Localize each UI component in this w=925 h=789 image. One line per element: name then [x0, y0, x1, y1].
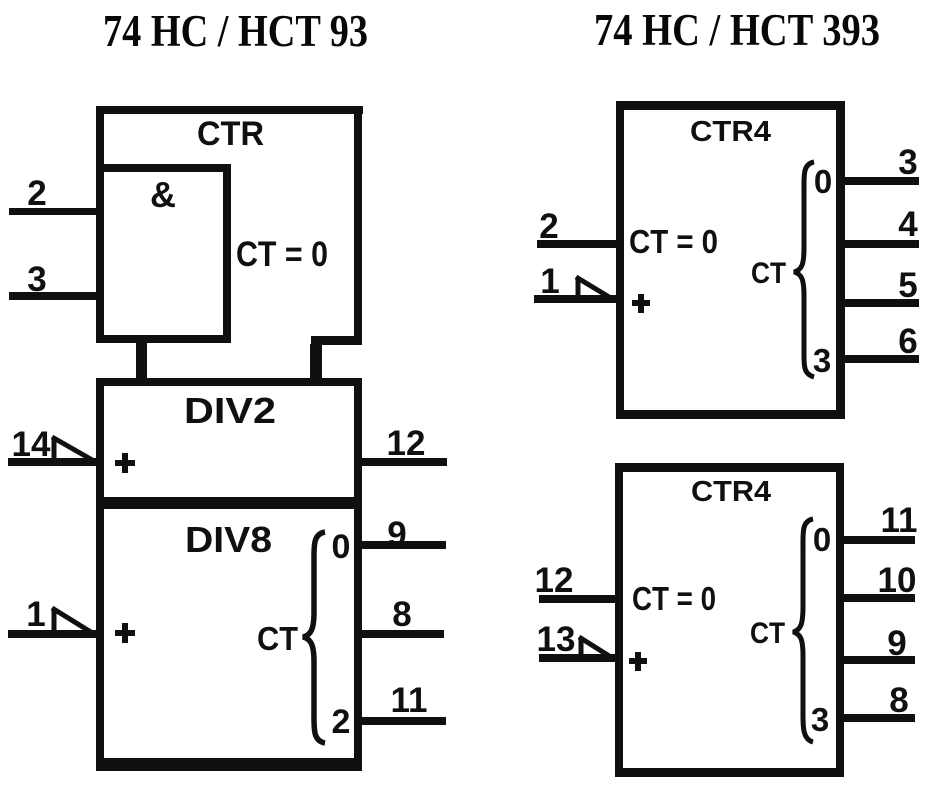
svg-text:9: 9: [887, 624, 906, 663]
svg-text:CT = 0: CT = 0: [632, 580, 716, 617]
svg-text:9: 9: [387, 515, 406, 554]
svg-text:11: 11: [391, 681, 428, 720]
svg-text:0: 0: [814, 163, 832, 200]
svg-text:CTR4: CTR4: [691, 476, 771, 508]
svg-text:8: 8: [889, 681, 908, 720]
svg-text:10: 10: [878, 561, 917, 600]
svg-text:2: 2: [332, 703, 351, 741]
svg-text:12: 12: [535, 561, 574, 600]
svg-text:DIV8: DIV8: [185, 519, 272, 560]
svg-text:CT: CT: [751, 257, 786, 290]
svg-text:CT: CT: [750, 617, 785, 650]
svg-text:0: 0: [813, 521, 831, 558]
svg-text:5: 5: [898, 266, 917, 305]
svg-text:2: 2: [539, 207, 558, 246]
svg-text:12: 12: [387, 424, 426, 463]
svg-text:3: 3: [898, 143, 917, 182]
svg-text:&: &: [150, 174, 176, 215]
svg-text:74 HC / HCT 393: 74 HC / HCT 393: [594, 5, 880, 55]
svg-text:CT = 0: CT = 0: [629, 223, 718, 260]
svg-text:13: 13: [537, 620, 576, 659]
svg-text:1: 1: [26, 595, 45, 634]
svg-text:CT = 0: CT = 0: [236, 235, 328, 274]
svg-text:CTR: CTR: [197, 115, 264, 153]
svg-text:1: 1: [540, 262, 559, 301]
svg-text:2: 2: [27, 174, 46, 213]
svg-text:3: 3: [811, 701, 829, 738]
svg-text:0: 0: [332, 528, 351, 566]
svg-text:3: 3: [813, 342, 831, 379]
svg-text:11: 11: [881, 501, 918, 540]
svg-text:3: 3: [27, 260, 46, 299]
svg-text:8: 8: [392, 595, 411, 634]
svg-text:CT: CT: [257, 620, 298, 657]
svg-text:6: 6: [898, 322, 917, 361]
svg-text:4: 4: [898, 205, 918, 244]
svg-text:CTR4: CTR4: [690, 116, 771, 148]
svg-text:74 HC / HCT 93: 74 HC / HCT 93: [103, 6, 368, 56]
svg-text:DIV2: DIV2: [184, 390, 276, 431]
svg-text:14: 14: [12, 425, 51, 464]
